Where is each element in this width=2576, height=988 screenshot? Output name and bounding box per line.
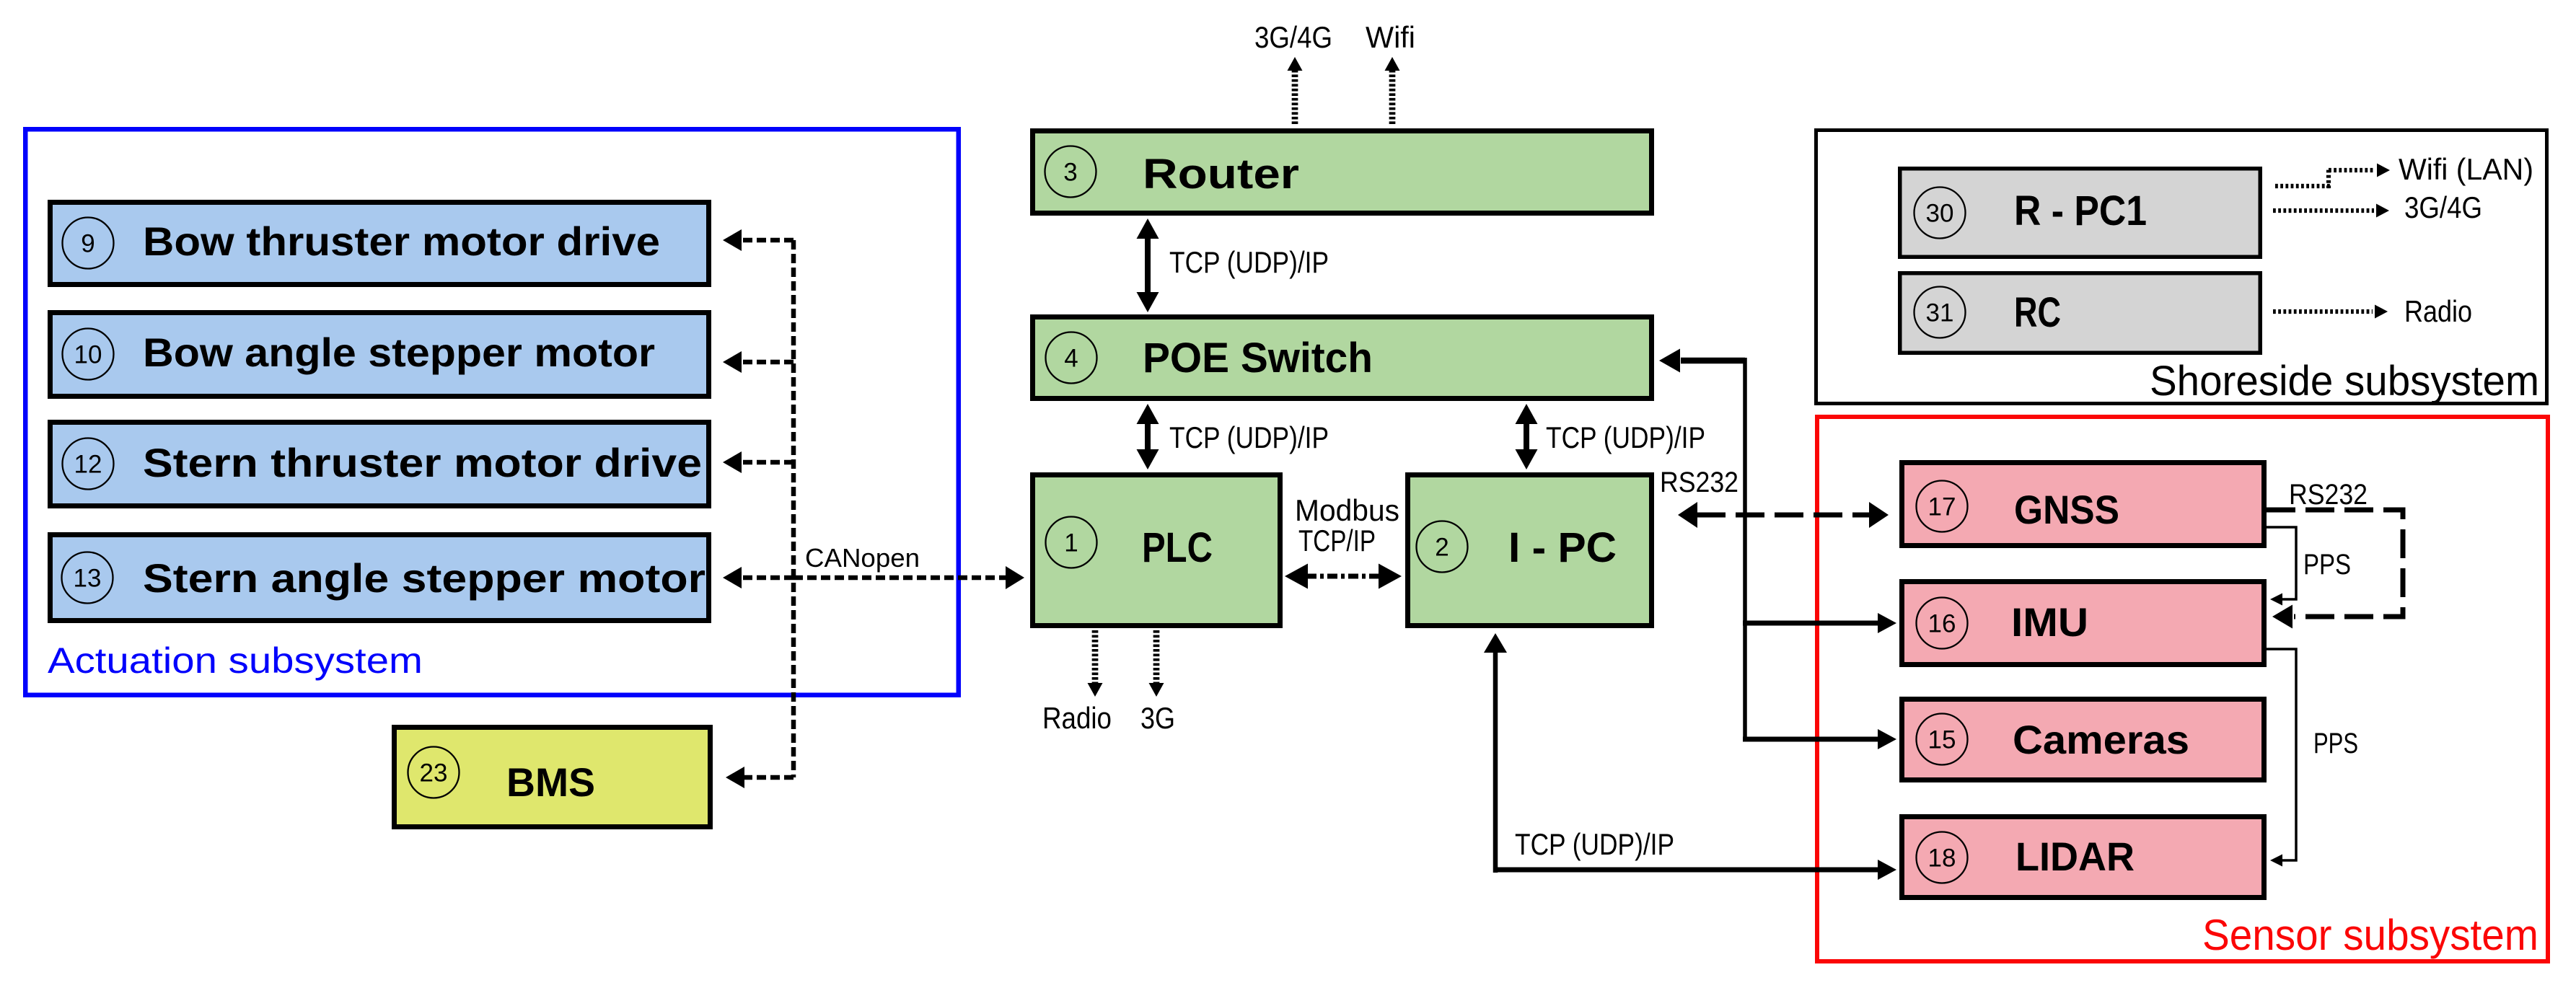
- circle label 16: [1917, 598, 1968, 649]
- circle label 10: [63, 329, 114, 380]
- svg-text:TCP (UDP)/IP: TCP (UDP)/IP: [1515, 827, 1674, 861]
- wire CANopen arrow to box 9: [723, 229, 794, 251]
- svg-text:17: 17: [1928, 493, 1956, 521]
- box 1 PLC: [1033, 475, 1280, 626]
- svg-text:2: 2: [1435, 534, 1449, 562]
- svg-text:TCP (UDP)/IP: TCP (UDP)/IP: [1169, 420, 1329, 454]
- circle label 1: [1046, 517, 1097, 568]
- svg-text:Bow thruster motor drive: Bow thruster motor drive: [143, 219, 660, 264]
- svg-text:Stern thruster motor drive: Stern thruster motor drive: [143, 440, 702, 485]
- svg-text:30: 30: [1926, 200, 1954, 228]
- shoreside subsystem frame: [1816, 131, 2547, 404]
- wire PLC to 3G: [1149, 630, 1164, 697]
- box 17 GNSS: [1902, 463, 2264, 546]
- svg-text:1: 1: [1064, 529, 1078, 557]
- wire trunk arrow to IMU: [1743, 613, 1896, 633]
- box 2 I-PC: [1408, 475, 1652, 626]
- svg-text:Sensor subsystem: Sensor subsystem: [2202, 911, 2538, 959]
- circle label 31: [1915, 287, 1966, 338]
- wire IPC-LIDAR TCP link: [1484, 633, 1896, 880]
- svg-text:23: 23: [420, 759, 448, 788]
- svg-text:LIDAR: LIDAR: [2015, 834, 2135, 879]
- circle label 4: [1046, 332, 1097, 384]
- box 18 LIDAR: [1902, 817, 2264, 898]
- box 9 Bow thruster motor drive: [50, 203, 709, 285]
- svg-text:R - PC1: R - PC1: [2014, 188, 2147, 234]
- circle label 3: [1045, 146, 1096, 198]
- box 23 BMS battery management: [395, 728, 711, 827]
- box 16 IMU: [1902, 582, 2264, 665]
- wire IMU-LIDAR PPS: [2267, 649, 2296, 867]
- wire RC to Radio: [2273, 305, 2388, 319]
- svg-text:POE Switch: POE Switch: [1143, 335, 1373, 381]
- wire R-PC1 to Wifi LAN: [2275, 164, 2390, 189]
- wire IPC-GNSS RS232 link: [1678, 502, 1889, 528]
- svg-text:IMU: IMU: [2011, 599, 2088, 645]
- svg-text:10: 10: [74, 341, 102, 369]
- svg-text:Modbus: Modbus: [1295, 493, 1399, 527]
- svg-text:I - PC: I - PC: [1508, 524, 1617, 571]
- svg-text:9: 9: [81, 230, 94, 258]
- wire CANopen arrow to box 12: [723, 451, 794, 473]
- wire Router-POE TCP link: [1137, 219, 1159, 312]
- svg-text:18: 18: [1928, 844, 1956, 873]
- svg-text:PPS: PPS: [2313, 728, 2358, 759]
- svg-text:BMS: BMS: [506, 759, 595, 805]
- svg-text:PLC: PLC: [1142, 524, 1213, 571]
- circle label 18: [1917, 832, 1968, 883]
- actuation subsystem frame: [25, 129, 959, 695]
- wire CANopen arrow to box 13: [723, 567, 794, 588]
- svg-text:Shoreside subsystem: Shoreside subsystem: [2150, 358, 2539, 405]
- box 30 R-PC1: [1900, 169, 2261, 257]
- svg-text:13: 13: [74, 565, 102, 593]
- wire Router to Wifi antenna: [1385, 57, 1400, 124]
- wire CANopen arrow to BMS: [726, 767, 794, 788]
- wire PLC to Radio: [1088, 630, 1103, 697]
- svg-text:3: 3: [1063, 159, 1077, 187]
- svg-text:TCP (UDP)/IP: TCP (UDP)/IP: [1169, 245, 1329, 279]
- svg-text:Cameras: Cameras: [2013, 717, 2189, 762]
- svg-text:Radio: Radio: [2404, 294, 2472, 328]
- svg-text:Wifi (LAN): Wifi (LAN): [2399, 152, 2533, 186]
- wire CANopen vertical trunk: [791, 240, 796, 777]
- svg-text:12: 12: [74, 451, 102, 479]
- circle label 2: [1417, 521, 1468, 573]
- wire GNSS-IMU RS232 loop: [2267, 510, 2403, 629]
- svg-text:CANopen: CANopen: [805, 543, 920, 573]
- svg-text:RS232: RS232: [1660, 467, 1738, 498]
- wire GNSS-IMU PPS: [2267, 527, 2296, 606]
- svg-text:GNSS: GNSS: [2014, 487, 2119, 532]
- svg-text:3G/4G: 3G/4G: [1254, 20, 1332, 54]
- box 31 RC: [1900, 273, 2261, 353]
- box 12 Stern thruster motor drive: [50, 423, 709, 506]
- svg-text:15: 15: [1928, 726, 1956, 754]
- circle label 12: [63, 438, 114, 490]
- svg-text:16: 16: [1928, 610, 1956, 638]
- wire POE-PLC TCP link: [1137, 404, 1159, 469]
- wire trunk arrow to Cameras: [1743, 729, 1896, 749]
- wire Router to 3G/4G antenna: [1288, 57, 1303, 124]
- box 10 Bow angle stepper motor: [50, 313, 709, 397]
- wire POE network trunk: [1743, 358, 1747, 739]
- svg-text:TCP/IP: TCP/IP: [1298, 524, 1376, 557]
- svg-text:RS232: RS232: [2289, 479, 2368, 511]
- svg-text:PPS: PPS: [2303, 549, 2351, 581]
- svg-text:31: 31: [1926, 299, 1954, 327]
- svg-text:3G/4G: 3G/4G: [2404, 190, 2482, 224]
- circle label 13: [62, 552, 113, 604]
- svg-text:3G: 3G: [1140, 701, 1175, 735]
- svg-text:Wifi: Wifi: [1366, 20, 1415, 54]
- svg-text:Radio: Radio: [1042, 701, 1112, 735]
- svg-text:Router: Router: [1143, 151, 1299, 198]
- svg-text:Bow angle stepper motor: Bow angle stepper motor: [143, 330, 655, 375]
- circle label 30: [1915, 188, 1966, 239]
- wire PLC-IPC Modbus link: [1285, 564, 1402, 589]
- sensor subsystem frame: [1817, 417, 2548, 961]
- box 13 Stern angle stepper motor: [50, 535, 709, 621]
- circle label 17: [1917, 481, 1968, 532]
- box 3 Router: [1033, 131, 1652, 213]
- wire POE-IPC TCP link: [1516, 404, 1538, 469]
- svg-text:4: 4: [1064, 345, 1078, 373]
- svg-text:Actuation subsystem: Actuation subsystem: [48, 640, 423, 681]
- wire CANopen to PLC: [794, 566, 1024, 589]
- wire trunk arrow to POE switch: [1659, 349, 1745, 373]
- circle label 23: [408, 747, 460, 798]
- box 15 Cameras: [1902, 700, 2264, 780]
- svg-text:RC: RC: [2014, 289, 2061, 336]
- wire R-PC1 to 3G/4G: [2273, 204, 2389, 218]
- circle label 9: [63, 218, 114, 269]
- wire CANopen arrow to box 10: [723, 351, 794, 373]
- svg-text:TCP (UDP)/IP: TCP (UDP)/IP: [1546, 420, 1705, 454]
- box 4 POE Switch: [1033, 317, 1652, 399]
- svg-text:Stern angle stepper motor: Stern angle stepper motor: [143, 555, 705, 601]
- circle label 15: [1917, 714, 1968, 765]
